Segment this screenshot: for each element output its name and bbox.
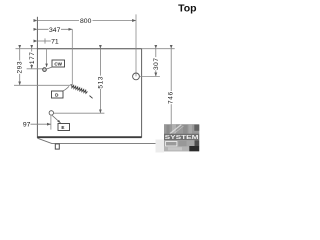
svg-text:SYSTEM: SYSTEM — [165, 135, 199, 141]
dim 97 extension from drain circle — [50, 116, 52, 130]
body right edge — [141, 49, 143, 138]
E label box — [58, 124, 70, 131]
svg-text:513: 513 — [97, 76, 104, 89]
dim 307 — [155, 49, 157, 77]
svg-text:177: 177 — [29, 51, 36, 64]
dim 97 — [31, 123, 51, 125]
svg-text:293: 293 — [17, 61, 24, 74]
svg-text:746: 746 — [168, 91, 175, 104]
front chamfer slant — [37, 138, 52, 143]
svg-text:800: 800 — [80, 18, 92, 25]
vertical leader from top edge down to CW inlet — [46, 49, 48, 67]
feature line to CW inlet (y=68.8) — [27, 68, 44, 70]
dim 177 — [31, 49, 33, 69]
svg-text:307: 307 — [153, 57, 160, 70]
circle top right (swivel tap) — [133, 73, 140, 80]
watermark shadow — [156, 140, 165, 153]
E leader — [52, 115, 60, 123]
svg-text:71: 71 — [51, 38, 59, 45]
svg-text:347: 347 — [49, 27, 61, 34]
body top edge (thicker) — [37, 48, 141, 50]
body bottom edge (thick) — [37, 136, 141, 138]
body left edge + upper extension — [36, 17, 38, 138]
extension line x=72.3 down to element joint — [71, 29, 73, 85]
drain circle — [49, 111, 53, 115]
svg-text:Top: Top — [178, 2, 196, 14]
dim 800 — [37, 20, 136, 22]
dim 513 — [99, 49, 101, 114]
CW label box — [52, 60, 65, 67]
dim 347 — [37, 28, 72, 30]
watermark logo — [164, 124, 199, 151]
svg-text:CW: CW — [54, 62, 62, 67]
top edge of body with extension lines — [16, 48, 175, 50]
heating element coil (zigzag) — [70, 85, 87, 93]
svg-text:E: E — [61, 125, 64, 130]
CW inlet circle — [43, 68, 47, 72]
dim 293 — [19, 49, 21, 86]
front lower line — [52, 143, 175, 145]
dim 800 right extension — [135, 14, 137, 76]
drain feature line y=113.2 — [54, 112, 105, 114]
dim 746 — [170, 49, 172, 144]
CW leader — [46, 67, 52, 69]
foot — [55, 144, 59, 149]
dim 71 — [37, 40, 50, 42]
D label box — [52, 91, 64, 98]
D leader — [63, 86, 69, 90]
svg-text:97: 97 — [23, 121, 31, 128]
leader right from circle — [139, 75, 160, 77]
feature line to element joint (y=85.3) — [14, 84, 70, 86]
